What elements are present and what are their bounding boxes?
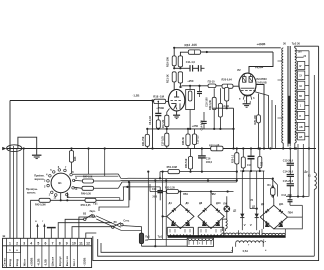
resistor R22b [212,88,216,129]
svg-text:-1,5В: -1,5В [44,259,48,266]
wire cluster drop4 [262,171,264,229]
svg-text:С20: С20 [152,188,157,191]
winding bridge2 [198,227,224,236]
label R47 [83,176,93,179]
capacitor C16 [198,149,206,173]
label R50 [81,204,92,207]
fuse Pr1 [123,226,144,247]
label PV4 [288,212,294,215]
label V2 type [256,77,267,81]
resistor R26 [218,88,222,129]
label D9 D11 [261,203,284,206]
svg-text:R51-10М: R51-10М [167,166,177,169]
wire sw9 out [74,179,82,182]
resistor R33 [258,149,262,172]
svg-text:Вход: Вход [8,259,12,266]
wire harness H1 [73,174,278,197]
label R27 [209,144,220,148]
switch B3 [84,214,95,220]
wire t4 chain [31,200,39,238]
svg-text:С13-20,0: С13-20,0 [283,159,294,162]
svg-text:V: V [244,223,246,227]
wire terminal3 up [23,149,25,239]
tube V1 cathode ground [173,111,180,118]
wire cathode cluster bottom [240,170,265,172]
rectifier bridge D4-D7 [167,204,194,228]
label C8 [149,115,152,125]
capacitor C10a [190,65,193,71]
label R21c [142,136,145,146]
label -1,2V [133,93,140,97]
label R30 [182,136,185,145]
resistor R46 [69,149,73,174]
resistor R31 [192,129,196,149]
capacitor C13 [287,163,294,174]
svg-text:Д11: Д11 [279,203,284,206]
label R19-10K [165,56,169,67]
label 22 [303,55,306,58]
svg-text:ЛН: ЛН [223,203,227,206]
label LV1 [183,193,189,196]
svg-text:Вых.зв: Вых.зв [65,256,69,266]
label R43 [35,203,46,206]
terminal sub boxes [6,246,20,253]
svg-text:R24 -10К: R24 -10К [184,43,197,47]
resistor R51 [159,170,237,180]
label R46 [74,156,77,161]
tube V2 pins [239,95,255,103]
rectifier bridge D8-D11 [198,204,224,228]
svg-text:Д10: Д10 [216,202,221,205]
selector plate 7 [298,123,305,131]
svg-text:~6,3В: ~6,3В [37,259,41,267]
svg-text:Жёлт: Жёлт [22,258,26,267]
resistor R19 [172,48,176,69]
selector plate 3 [298,81,305,90]
svg-text:R43-0,3М: R43-0,3М [35,203,46,206]
wire Tr2 bottom [282,143,296,150]
resistor R-P9 [208,84,216,88]
wire harness H2 [94,179,237,181]
winding D left [222,230,260,235]
svg-text:АВ: АВ [299,126,303,129]
loop box right of bridge3 [274,205,303,229]
resistor R43 [39,198,50,202]
connector input shield [2,145,22,152]
wire +250 line [147,128,233,130]
label R24-10K [184,43,197,47]
svg-text:-1,2В: -1,2В [133,93,140,97]
wire grid feedback long [10,99,154,238]
label C11-4,0 [186,60,196,64]
tube V1 envelope [168,89,184,111]
wire anode row [182,85,240,87]
label D1 [233,210,237,213]
wire harness H3 [123,186,160,188]
svg-text:1: 1 [9,242,11,246]
tube V2 envelope [239,73,256,96]
svg-text:С8-0,02: С8-0,02 [149,115,152,125]
label +400V [256,42,266,46]
label player [26,188,38,194]
svg-text:R21-1К: R21-1К [165,74,169,83]
wire cap bank bottom [286,195,309,197]
label tube V1 type [179,85,183,89]
svg-text:R19-10К: R19-10К [165,56,169,67]
label R25b [232,154,234,163]
resistor R29 [257,94,261,150]
svg-text:R52-2,2К: R52-2,2К [165,187,176,190]
resistor R50 [85,198,96,202]
svg-text:КЛ: КЛ [299,137,302,139]
resistor R30 [186,128,190,149]
label 100 [298,51,303,54]
wire v162 [162,171,167,240]
transformer Tr1 sec box [187,238,213,246]
capacitor C12 [288,197,293,206]
svg-text:6: 6 [45,242,47,246]
wire V2 screen right [256,85,265,150]
svg-text:R49-0,36: R49-0,36 [81,193,92,196]
svg-text:С15-0,5: С15-0,5 [197,135,200,144]
svg-text:V: V [250,223,252,227]
label Pr1 [145,235,150,241]
wire t6 arrow [42,221,45,238]
wire t5 arrow [35,221,39,238]
connector terminal strip Sh1 [3,238,92,267]
wire selector right bus [305,51,310,197]
switch B5 [112,223,124,229]
wire bridge1 top [179,192,181,205]
label R51 [167,166,177,169]
capacitor C8 [155,101,161,120]
label +250 mid [192,124,199,128]
lamp LN [224,196,230,212]
svg-text:100,0: 100,0 [206,161,213,164]
svg-text:Шасси: Шасси [51,257,55,267]
diode D1 [240,214,244,231]
label D4 D6 [169,202,190,205]
wire B3 diag [96,216,142,231]
svg-text:Л2•6П3С: Л2•6П3С [256,77,267,81]
wire terminal2 up [14,146,17,238]
resistor R47 [83,179,94,183]
resistor R17 [156,120,160,129]
wire Tr2 taps [295,51,309,133]
svg-text:-3,2В: -3,2В [223,104,229,108]
tube V2 top lead [248,67,250,74]
svg-text:R33: R33 [262,161,264,166]
bridge1 marks [171,222,190,226]
label R17 [162,119,165,128]
wire right verticals [298,144,303,197]
svg-text:Л2: Л2 [237,68,241,72]
svg-text:ПЗ-10: ПЗ-10 [208,80,216,83]
label PV3 [0,0,1,1]
svg-text:7: 7 [52,242,54,246]
label LN [223,203,227,206]
label R18-1M [153,95,164,99]
svg-text:+250: +250 [187,79,194,83]
resistor R52 [167,190,179,194]
svg-text:Тр2 30: Тр2 30 [292,41,301,45]
label Gr [94,202,99,205]
label +250V [156,106,164,110]
label 0,5A [231,245,267,253]
svg-text:Зел.т: Зел.т [72,258,76,266]
resistor R49 [82,186,94,190]
svg-text:R22-3,3К: R22-3,3К [209,99,212,110]
capacitor C10b [198,65,201,71]
svg-text:С17-0,25: С17-0,25 [161,135,164,146]
label B3 [83,210,96,215]
capacitor C14b [287,175,294,184]
rectifier bridge D9-D13 [260,205,287,229]
resistor R21c [145,128,149,149]
svg-text:R20-0,64: R20-0,64 [222,79,233,82]
label tube V2 [237,68,241,72]
resistor R25b [235,147,239,182]
V marks [244,223,252,227]
wire harness H2b [94,182,237,200]
svg-text:г: г [42,221,43,223]
choke Dr1 [314,75,316,256]
label +250 [187,79,194,83]
capacitor C9 [178,56,182,68]
svg-text:3: 3 [23,242,25,246]
tube V1 cathode resistor [165,109,170,129]
selector plate 1 [298,61,305,69]
transformer Tr1 filament [236,241,264,247]
svg-text:100: 100 [298,51,303,54]
svg-text:Сетка: Сетка [3,258,7,267]
wire V2 aux right [254,92,269,149]
label B4 [267,184,271,187]
label R21 [165,74,169,83]
svg-text:8: 8 [59,242,61,246]
svg-text:R50-51К: R50-51К [185,158,188,168]
wire fuse to Tr1 [142,245,188,247]
capacitor C20 [157,187,163,200]
tube V1 electrodes [171,91,181,110]
label C14b [283,171,294,174]
switch B1 contacts [44,165,78,200]
wire bus drop1 [88,149,90,175]
wire v155 [154,180,156,246]
label D8 D10 [199,202,221,205]
label C15 [283,180,294,183]
svg-text:R25-0,1: R25-0,1 [232,154,234,163]
winding bridge3 [262,229,285,235]
label B5 [114,220,130,224]
wire V2 aux right2 [272,100,276,149]
wire Tr2 top right [295,46,319,48]
svg-text:С15-20,0: С15-20,0 [283,180,294,183]
winding bridge1 [167,227,193,236]
frame inner [98,239,315,256]
svg-text:2: 2 [16,242,18,246]
wire junction row [173,67,204,69]
label Sh [3,234,6,238]
label Tb [250,199,253,202]
svg-text:2•20,0В: 2•20,0В [257,80,266,84]
diode D2 [255,214,259,231]
label +430V [255,65,264,70]
shield box C10 [186,86,195,130]
wire t11 run [79,217,96,238]
wire t12 run [86,233,97,238]
svg-text:Др: Др [304,170,308,173]
svg-text:9: 9 [66,242,68,246]
svg-text:R27-1,6К: R27-1,6К [209,144,220,148]
label C10-100 [206,97,209,107]
wire cluster drop3 [256,171,258,214]
wire sw10 out [74,187,83,188]
label C14-0,25 [200,120,203,131]
selector plate 2 [298,71,305,80]
label n mark [264,239,267,243]
svg-text:R50-0,35: R50-0,35 [81,204,92,207]
ground input [32,155,42,158]
resistor R22a [188,91,192,101]
svg-text:С11-4,0: С11-4,0 [186,60,196,64]
svg-text:Тр1: Тр1 [158,234,163,238]
capacitor C9b [178,72,182,88]
label Dr1 [304,170,311,177]
node chassis bus [7,147,316,149]
svg-text:5В: 5В [299,96,302,98]
svg-text:ЛВ1: ЛВ1 [183,193,189,196]
label LV2 [211,193,217,196]
tube V2 grid cathode [241,88,256,95]
terminal numbers [9,242,90,246]
svg-text:С17: С17 [247,165,252,167]
svg-text:R47-10К: R47-10К [83,176,93,179]
capacitor C15 [287,184,294,197]
wire cluster drop1 [241,171,243,214]
label R22 [209,99,212,110]
wire bus drop2 [104,149,106,177]
label 20,0V [257,80,266,84]
capacitor C17 electrolytic [247,149,255,172]
svg-text:В1: В1 [58,181,62,185]
winding lamp [222,212,227,231]
svg-text:+250В: +250В [29,258,33,267]
svg-text:4: 4 [30,242,32,246]
svg-text:звукосн.: звукосн. [34,178,45,181]
transformer Tr2 primary taps [278,61,284,118]
wire screen supply [180,51,273,74]
svg-text:10: 10 [72,242,76,246]
svg-text:Гр1: Гр1 [94,202,99,205]
svg-text:0,5А: 0,5А [243,249,249,253]
selector plate 8 [298,133,305,140]
svg-text:С12 -300: С12 -300 [281,194,292,197]
wire +400V rail [173,47,281,49]
wire t10 run [72,227,112,239]
chassis heavy bar [168,235,286,237]
svg-text:ватель: ватель [27,192,36,195]
svg-text:~220В: ~220В [83,258,87,267]
resistor R27 [211,146,223,151]
frame outer [93,46,319,260]
label R20-0,64 [222,79,233,82]
switch B1 rotor [51,173,71,193]
svg-text:R46: R46 [74,156,77,161]
label R29-10K [254,115,257,125]
resistor R28 [165,129,169,149]
wire input bracket [18,137,37,155]
svg-text:С10-100: С10-100 [206,97,209,107]
svg-text:R28-3К: R28-3К [182,136,185,145]
wire speaker box [50,181,130,211]
svg-text:ЛВ2: ЛВ2 [211,193,217,196]
label -3,2V [223,104,229,108]
svg-text:R29-10К: R29-10К [254,115,257,125]
selector plate 5 [298,101,305,109]
transformer Tr2 primary [282,48,283,143]
svg-text:+400В: +400В [256,42,266,46]
svg-text:R21-70К: R21-70К [142,136,145,146]
label R52 [165,187,176,190]
wire t7 bar [47,228,56,239]
label R28 [161,135,164,146]
resistor R24 [188,50,200,54]
bridge2 marks [202,222,220,226]
label C16 [206,158,213,164]
wire bottom inner run [101,243,233,252]
label B1 [58,181,62,185]
wire v166 [165,180,167,246]
resistor R21a [172,72,176,90]
label R31 [197,135,200,144]
wire bridge3 top [273,199,275,206]
capacitor C14 [201,112,206,129]
label Tr2 [283,41,300,45]
svg-text:+250: +250 [192,124,199,128]
tube V2 cathode ground [243,96,251,107]
wire bridge2 top [210,192,212,205]
wire cap bank feed [289,147,291,162]
capacitor C12a [197,85,202,97]
bridge3 marks [265,223,283,227]
terminal labels [3,256,87,268]
svg-text:С14-20,0: С14-20,0 [283,171,294,174]
svg-text:Звук.: Звук. [89,210,95,213]
svg-text:Сеть: Сеть [123,220,129,223]
resistor R25a [225,87,229,108]
wire d2 tap [250,208,258,210]
transformer Tr2 secondary [295,48,296,143]
label R54 [185,158,188,168]
svg-text:1С: 1С [299,86,302,88]
selector plate 4 [298,91,305,99]
svg-text:R18 -1М: R18 -1М [153,95,164,99]
resistor R20 [222,84,233,88]
selector plate 6 [298,111,305,119]
label Tr1 [158,234,163,238]
svg-text:ПВ4: ПВ4 [288,212,294,215]
svg-text:Вход: Вход [15,259,19,266]
wire cathode bus [213,107,235,149]
wire harness H4 [150,184,234,193]
label C20 [152,188,158,199]
label R49 [81,193,92,196]
label C13 [283,159,294,162]
wire t8 run [58,223,112,239]
wire t9 run [65,219,84,238]
svg-text:+430В: +430В [255,65,264,70]
